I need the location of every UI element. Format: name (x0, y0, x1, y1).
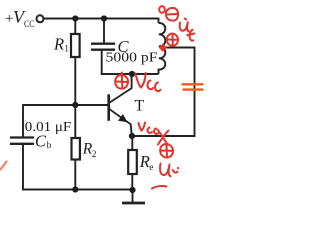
wire: R1 top lead (74, 19, 76, 35)
svg-text:T: T (135, 98, 145, 115)
transistor T emitter arrowhead (118, 114, 127, 122)
node: ground junction (129, 187, 135, 193)
resistor Re (128, 150, 137, 174)
annotation: Vcc handwritten at emitter wire (red) (139, 123, 146, 131)
annotation: capacitor mark on feedback wire (orange) (183, 83, 203, 85)
wire: feedback right edge (194, 47, 196, 137)
label R1 (53, 34, 69, 54)
wire: coil tap lead (160, 47, 196, 49)
resistor R2 (72, 138, 80, 160)
wire: R1 bottom lead to base node (74, 57, 76, 105)
label Cb (35, 131, 52, 151)
svg-text:2: 2 (92, 150, 97, 160)
transistor T base bar (107, 94, 110, 121)
wire: top supply rail (44, 18, 159, 20)
wire: tank left branch lower (101, 51, 103, 75)
capacitor C plates (91, 43, 115, 45)
wire: base rail (23, 104, 108, 106)
resistor R1 (71, 34, 80, 57)
node: collector junction on tank (129, 71, 135, 77)
svg-text:CC: CC (24, 20, 35, 30)
svg-text:1: 1 (64, 45, 69, 55)
node: emitter junction (129, 133, 135, 139)
annotation: circled plus upper (red) (167, 34, 178, 46)
wire: tank top right corner drop (158, 18, 160, 23)
annotation: Ui handwritten (red) (160, 164, 170, 177)
wire: collector vertical lead (131, 74, 133, 89)
wire: Cb bottom lead (22, 145, 24, 191)
transistor T collector stroke (110, 88, 132, 102)
node: R2 bottom junction (72, 186, 78, 192)
annotation: X crossing feedback wire (red) (158, 130, 169, 145)
svg-text:e: e (149, 163, 153, 173)
svg-text:b: b (47, 141, 52, 151)
ground (132, 190, 134, 202)
svg-text:R: R (53, 34, 64, 53)
wire: R2 bottom lead (74, 160, 76, 190)
node: top R1 junction (72, 15, 78, 21)
wire: tank bottom edge (101, 73, 159, 75)
annotation: U-dot f (feedback voltage label, red) (185, 18, 186, 21)
wire: Re bottom lead (131, 174, 133, 190)
annotation: circled plus at emitter (red) (160, 144, 173, 158)
label R2 (82, 141, 97, 161)
inductor L coil (4 loops, tap in middle) (159, 23, 166, 74)
wire: bottom rail (22, 189, 132, 191)
svg-text:0.01 μF: 0.01 μF (25, 119, 72, 134)
wire: Re top lead (131, 136, 133, 150)
annotation: tap arrowhead (red) (160, 44, 167, 51)
label +Vcc (5, 7, 35, 30)
node: base junction (72, 102, 78, 108)
annotation: red underline dash (152, 186, 167, 188)
terminal +Vcc (37, 15, 44, 22)
annotation: Vcc handwritten at tank bottom (red) (136, 73, 146, 88)
svg-text:C: C (35, 131, 47, 150)
svg-text:5000 pF: 5000 pF (106, 50, 158, 65)
label Re (139, 152, 154, 173)
wire: tank left branch upper (103, 19, 105, 44)
annotation: stray orange dash bottom-left (1, 162, 7, 170)
transistor T emitter stroke (110, 109, 131, 124)
wire: Cb top lead (22, 104, 24, 137)
wire: R2 top lead (74, 105, 76, 138)
svg-text:R: R (139, 152, 150, 171)
annotation: small o (red) (159, 6, 165, 13)
annotation: circled plus at tank bottom (red) (115, 73, 128, 89)
capacitor Cb plates (10, 136, 34, 138)
node: top C junction (101, 15, 107, 21)
annotation: circled minus (red) (166, 8, 178, 21)
wire: feedback bottom run to emitter (132, 135, 195, 137)
wire: emitter lead down to node (131, 124, 132, 137)
